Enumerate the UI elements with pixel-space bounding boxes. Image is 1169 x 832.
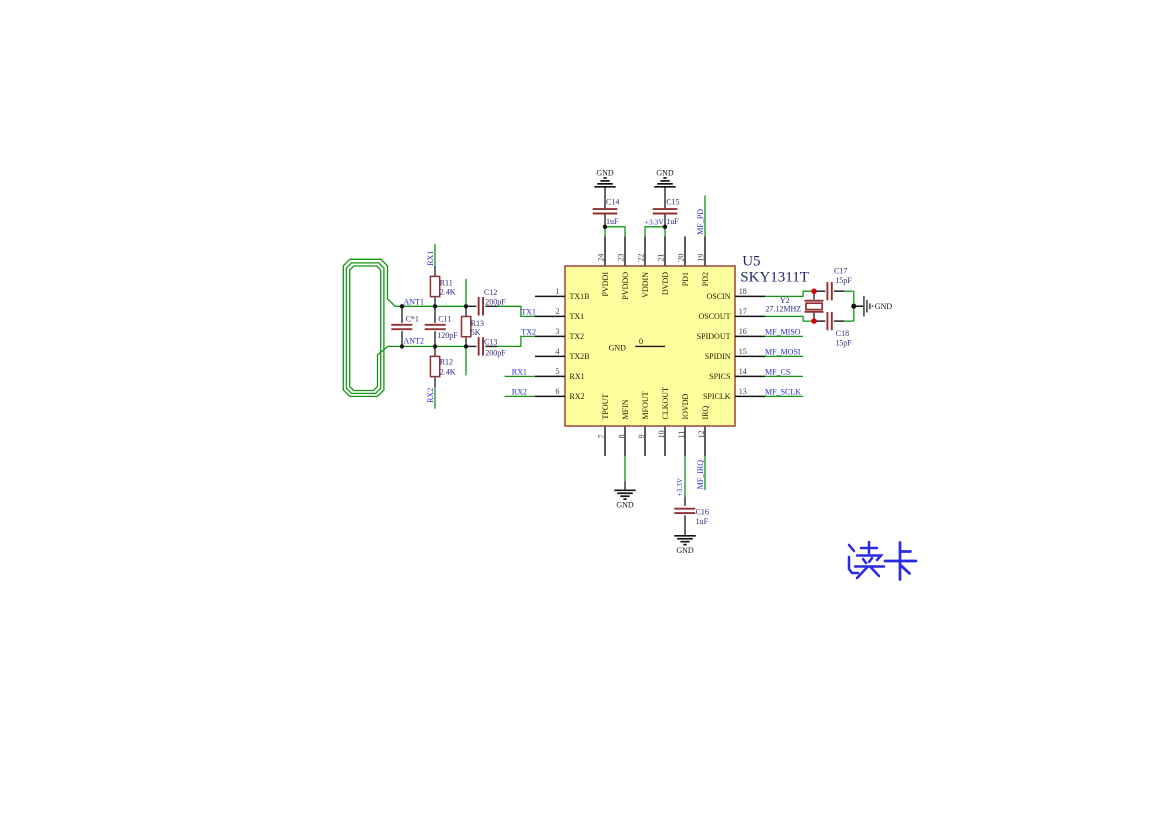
- pin 3 stub: [535, 335, 565, 337]
- svg-text:R12: R12: [440, 358, 453, 367]
- junction crystal bottom (red): [811, 318, 817, 324]
- svg-text:TX2: TX2: [570, 332, 585, 341]
- junction ANT2-C11: [433, 344, 437, 348]
- svg-text:RX2: RX2: [512, 388, 527, 397]
- pin 8 stub: [624, 426, 626, 456]
- junction pin21/pin22: [663, 225, 667, 229]
- svg-text:24: 24: [596, 254, 605, 262]
- svg-text:13: 13: [739, 387, 747, 396]
- svg-text:2.4K: 2.4K: [440, 288, 456, 297]
- ground right sideways: [864, 296, 873, 317]
- pin 16 stub: [735, 335, 765, 337]
- svg-text:C18: C18: [836, 329, 849, 338]
- wire node to pin21: [664, 227, 666, 236]
- svg-text:C11: C11: [438, 315, 451, 324]
- svg-text:SPICS: SPICS: [709, 372, 730, 381]
- capacitor C11: [425, 325, 446, 329]
- pin 9 stub: [644, 426, 646, 456]
- wire MF_IRQ: [704, 456, 706, 490]
- resistor R13: [462, 317, 471, 337]
- svg-text:21: 21: [656, 254, 665, 262]
- svg-text:SPIDIN: SPIDIN: [705, 352, 731, 361]
- pin 1 stub: [535, 295, 565, 297]
- junction pin24/pin23: [603, 225, 607, 229]
- svg-text:RX1: RX1: [426, 251, 435, 266]
- pin 24 stub: [604, 236, 606, 266]
- pin 21 stub: [664, 236, 666, 266]
- svg-text:3: 3: [556, 327, 560, 336]
- capacitor C17: [827, 282, 831, 300]
- lead C11 top: [434, 306, 436, 323]
- svg-text:RX1: RX1: [570, 372, 585, 381]
- svg-text:C*1: C*1: [406, 315, 419, 324]
- svg-text:SPICLK: SPICLK: [703, 392, 731, 401]
- lead C17 right: [834, 290, 845, 292]
- svg-text:11: 11: [677, 431, 686, 439]
- pin 6 stub: [535, 395, 565, 397]
- ground top-left: [594, 178, 616, 187]
- lead C13 left: [466, 345, 476, 347]
- lead C17 left: [814, 290, 825, 292]
- lead C16 bottom: [684, 515, 686, 536]
- antenna coil: [343, 259, 402, 396]
- svg-text:TX1: TX1: [521, 307, 536, 316]
- lead R11 bottom: [434, 297, 436, 307]
- svg-text:DVDD: DVDD: [661, 272, 670, 295]
- wire MF_CS: [765, 375, 803, 377]
- svg-text:18: 18: [739, 287, 747, 296]
- crystal Y2 symbol: [805, 301, 824, 312]
- pin 15 stub: [735, 355, 765, 357]
- svg-text:10: 10: [657, 430, 666, 438]
- wire pin18 to crystal top: [765, 291, 814, 296]
- lead R12 top: [434, 346, 436, 356]
- svg-text:GND: GND: [596, 168, 614, 177]
- pin 4 stub: [535, 355, 565, 357]
- svg-text:RX2: RX2: [570, 392, 585, 401]
- svg-text:15pF: 15pF: [835, 276, 852, 285]
- lead C15 top: [664, 187, 666, 209]
- wire MF_PD: [704, 195, 706, 236]
- capacitor C*1: [391, 325, 412, 329]
- svg-text:14: 14: [739, 367, 747, 376]
- capacitor C16: [674, 509, 695, 513]
- svg-text:15: 15: [739, 347, 747, 356]
- ground top-right: [654, 178, 676, 187]
- lead C18 left: [814, 320, 825, 322]
- wire pin24 to node: [604, 227, 606, 236]
- pin 13 stub: [735, 395, 765, 397]
- svg-text:GND: GND: [656, 168, 674, 177]
- svg-text:TPOUT: TPOUT: [601, 394, 610, 420]
- svg-text:120pF: 120pF: [437, 331, 458, 340]
- svg-text:U5: U5: [742, 254, 760, 270]
- svg-text:20: 20: [676, 254, 685, 262]
- svg-text:MFIN: MFIN: [621, 399, 630, 419]
- svg-text:8: 8: [617, 434, 626, 438]
- wire pin11 +3.3V: [684, 456, 686, 497]
- junction ANT2-R13: [464, 344, 468, 348]
- svg-text:MFOUT: MFOUT: [641, 391, 650, 419]
- svg-text:C15: C15: [666, 197, 679, 206]
- wire MF_MOSI: [765, 355, 803, 357]
- pin 14 stub: [735, 375, 765, 377]
- wire riser above ANT1: [465, 279, 467, 307]
- svg-text:1uF: 1uF: [696, 517, 709, 526]
- svg-text:C17: C17: [834, 267, 847, 276]
- pin 23 stub: [624, 236, 626, 266]
- svg-text:1uF: 1uF: [666, 217, 679, 226]
- lead C11 bottom: [434, 331, 436, 346]
- svg-text:17: 17: [739, 307, 747, 316]
- capacitor C15: [653, 209, 678, 213]
- lead R13 bottom: [465, 337, 467, 347]
- svg-text:MF_SCLK: MF_SCLK: [765, 388, 801, 397]
- pin 20 stub: [684, 236, 686, 266]
- svg-text:MF_CS: MF_CS: [765, 368, 790, 377]
- lead C*1 bottom: [401, 331, 403, 346]
- junction ANT1-C*1: [400, 304, 404, 308]
- svg-text:CLKOUT: CLKOUT: [661, 387, 670, 420]
- svg-text:OSCOUT: OSCOUT: [698, 312, 730, 321]
- svg-text:TX2B: TX2B: [570, 352, 590, 361]
- svg-text:GND: GND: [676, 546, 694, 555]
- wire pin17 to crystal bottom: [765, 316, 814, 321]
- svg-text:TX2: TX2: [521, 327, 536, 336]
- svg-text:GND: GND: [875, 302, 893, 311]
- svg-text:4: 4: [556, 347, 560, 356]
- svg-text:RX2: RX2: [426, 388, 435, 403]
- lead C15 bottom: [664, 214, 666, 227]
- wire RX1 stub top: [434, 244, 436, 266]
- pin 18 stub: [735, 295, 765, 297]
- svg-text:16: 16: [739, 327, 747, 336]
- svg-text:2: 2: [556, 307, 560, 316]
- svg-text:12: 12: [697, 430, 706, 438]
- pin 19 stub: [704, 236, 706, 266]
- resistor R12: [430, 356, 439, 376]
- wire RX2 stub bottom: [434, 387, 436, 409]
- pin 5 stub: [535, 375, 565, 377]
- ground bottom pin8: [614, 490, 636, 499]
- svg-text:22: 22: [636, 254, 645, 262]
- svg-text:RX1: RX1: [512, 368, 527, 377]
- wire MF_SCLK: [765, 395, 803, 397]
- svg-text:SPIDOUT: SPIDOUT: [697, 332, 731, 341]
- lead C12 left: [466, 305, 476, 307]
- svg-text:C13: C13: [484, 338, 497, 347]
- svg-text:C12: C12: [484, 288, 497, 297]
- pin 2 stub: [535, 315, 565, 317]
- capacitor C18: [827, 312, 831, 330]
- junction ANT1-R13: [464, 304, 468, 308]
- lead R11 top: [434, 266, 436, 276]
- lead C*1 top: [401, 306, 403, 323]
- lead Y2 top: [813, 291, 815, 299]
- svg-text:PD2: PD2: [701, 272, 710, 286]
- junction right rail ground: [851, 304, 856, 309]
- wire pin22 +3.3V to node: [645, 227, 665, 237]
- svg-text:GND: GND: [616, 501, 634, 510]
- junction ANT1-C11: [433, 304, 437, 308]
- svg-text:PVDDI: PVDDI: [601, 272, 610, 297]
- lead R12 bottom: [434, 377, 436, 387]
- wire ANT1 rail: [402, 305, 466, 307]
- pin 17 stub: [735, 315, 765, 317]
- wire C17 to rail: [844, 290, 853, 292]
- pin 11 stub: [684, 426, 686, 456]
- svg-text:0: 0: [639, 337, 643, 346]
- pin 12 stub: [704, 426, 706, 456]
- svg-text:5K: 5K: [471, 328, 481, 337]
- svg-text:ANT1: ANT1: [404, 297, 424, 306]
- svg-text:200pF: 200pF: [485, 297, 506, 306]
- resistor R11: [430, 276, 439, 296]
- capacitor C13: [479, 337, 483, 355]
- svg-text:IOVDD: IOVDD: [681, 394, 690, 420]
- lead C13 right: [485, 345, 497, 347]
- lead C18 right: [834, 320, 845, 322]
- title text 读卡 (card reading) drawn as strokes: [849, 542, 884, 578]
- wire RX1 pin5: [505, 375, 535, 377]
- pin 7 stub: [604, 426, 606, 456]
- wire C12 to TX1 pin2: [497, 306, 535, 316]
- lead to ground right: [854, 305, 863, 307]
- wire riser below ANT2: [465, 346, 467, 375]
- wire RX2 pin6: [505, 395, 535, 397]
- pin 10 stub: [664, 426, 666, 456]
- lead C14 top: [604, 187, 606, 209]
- svg-text:MF_MOSI: MF_MOSI: [765, 348, 801, 357]
- junction crystal top (red): [811, 288, 817, 294]
- ground bottom C16: [674, 536, 696, 545]
- svg-text:15pF: 15pF: [835, 338, 852, 347]
- svg-text:MF_IRQ: MF_IRQ: [696, 460, 705, 490]
- svg-text:VDDIN: VDDIN: [641, 272, 650, 298]
- svg-text:27.12MHZ: 27.12MHZ: [765, 305, 801, 314]
- svg-text:R11: R11: [440, 279, 453, 288]
- svg-text:IRQ: IRQ: [701, 406, 710, 420]
- svg-text:ANT2: ANT2: [404, 336, 424, 345]
- lead C14 bottom: [604, 214, 606, 227]
- svg-text:19: 19: [696, 254, 705, 262]
- wire C13 to TX2 pin3: [497, 336, 535, 346]
- svg-text:5: 5: [556, 367, 560, 376]
- svg-text:SKY1311T: SKY1311T: [740, 270, 809, 286]
- svg-text:MF_MISO: MF_MISO: [765, 328, 801, 337]
- lead R13 top: [465, 306, 467, 316]
- svg-text:TX1: TX1: [570, 312, 585, 321]
- wire MF_MISO: [765, 335, 803, 337]
- op-chip U5 SKY1311T body: [565, 266, 735, 426]
- svg-text:TX1B: TX1B: [570, 292, 590, 301]
- svg-text:C16: C16: [696, 508, 709, 517]
- svg-text:GND: GND: [609, 344, 627, 353]
- svg-text:7: 7: [597, 434, 606, 438]
- svg-text:MF_PD: MF_PD: [696, 209, 705, 235]
- svg-text:PD1: PD1: [681, 272, 690, 286]
- svg-text:OSCIN: OSCIN: [706, 292, 730, 301]
- svg-text:+3.3V: +3.3V: [645, 218, 664, 227]
- lead Y2 bottom: [813, 313, 815, 322]
- wire C18 to rail: [844, 320, 853, 322]
- lead ground pin8: [624, 482, 626, 491]
- svg-text:C14: C14: [606, 197, 619, 206]
- svg-text:1uF: 1uF: [606, 217, 619, 226]
- capacitor C14: [593, 209, 618, 213]
- svg-text:PVDDO: PVDDO: [621, 272, 630, 300]
- lead C16 top: [684, 497, 686, 506]
- svg-text:6: 6: [556, 387, 560, 396]
- wire ANT2 rail: [402, 345, 466, 347]
- svg-text:R13: R13: [471, 319, 484, 328]
- capacitor C12: [479, 297, 483, 315]
- svg-text:1: 1: [556, 287, 560, 296]
- lead C12 right: [485, 305, 497, 307]
- wire node to pin23: [605, 227, 625, 237]
- wire right rail: [853, 291, 855, 321]
- pin 22 stub: [644, 236, 646, 266]
- svg-text:2.4K: 2.4K: [440, 368, 456, 377]
- wire pin8 to ground: [624, 456, 626, 482]
- svg-text:200pF: 200pF: [485, 349, 506, 358]
- junction ANT2-C*1: [400, 344, 404, 348]
- svg-text:9: 9: [637, 434, 646, 438]
- svg-text:23: 23: [616, 254, 625, 262]
- svg-text:+3.3V: +3.3V: [675, 477, 684, 496]
